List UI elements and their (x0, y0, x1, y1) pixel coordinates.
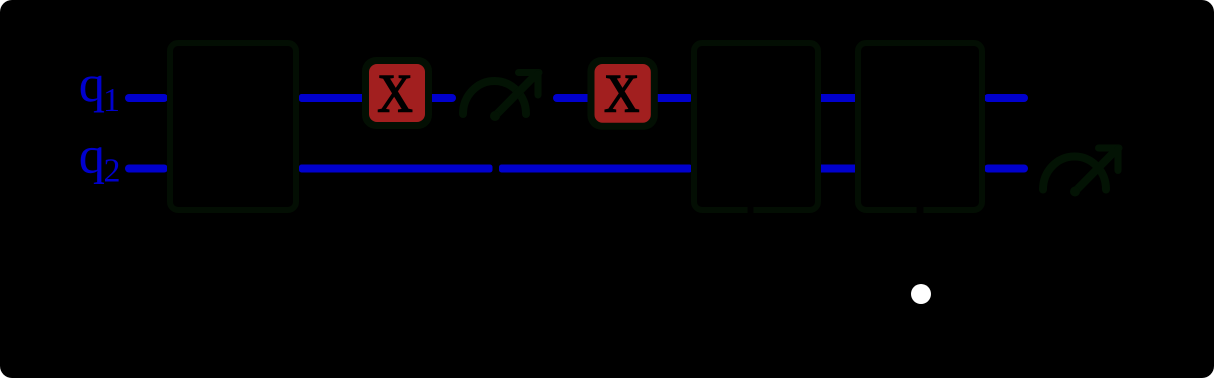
measurement M2 on q2 (1043, 148, 1119, 197)
wire q1 segment 7 (984, 94, 1028, 102)
classical bit dot (911, 284, 931, 304)
wire q2 segment 2 (299, 165, 493, 173)
wire q2 segment 5 (984, 165, 1028, 173)
classical stub below U2 (748, 203, 754, 216)
svg-text:1: 1 (103, 82, 120, 119)
gate box U1 (170, 43, 296, 210)
X gate X1 (362, 57, 432, 129)
wire q1 segment 6 (818, 94, 858, 102)
svg-text:q: q (79, 55, 105, 113)
gate box U2 (694, 43, 818, 210)
svg-text:X: X (604, 63, 640, 123)
classical stub below U3 (917, 203, 924, 216)
wire q1 segment 5 (651, 94, 692, 102)
wire q1 segment 4 (553, 94, 595, 102)
X gate X2 (588, 57, 658, 130)
wire q1 segment 2 (299, 94, 368, 102)
qubit label q2 (79, 127, 121, 190)
wire q2 segment 3 (499, 165, 692, 173)
svg-text:q: q (79, 127, 105, 185)
wire q1 segment 1 (125, 94, 168, 102)
wire q1 segment 3 (428, 94, 456, 102)
measurement M1 on q1 (463, 73, 539, 122)
gate box U3 (858, 43, 982, 210)
svg-text:X: X (377, 63, 413, 123)
qubit label q1 (79, 55, 120, 119)
wire q2 segment 1 (125, 165, 168, 173)
svg-text:2: 2 (104, 152, 121, 189)
wire q2 segment 4 (818, 165, 858, 173)
